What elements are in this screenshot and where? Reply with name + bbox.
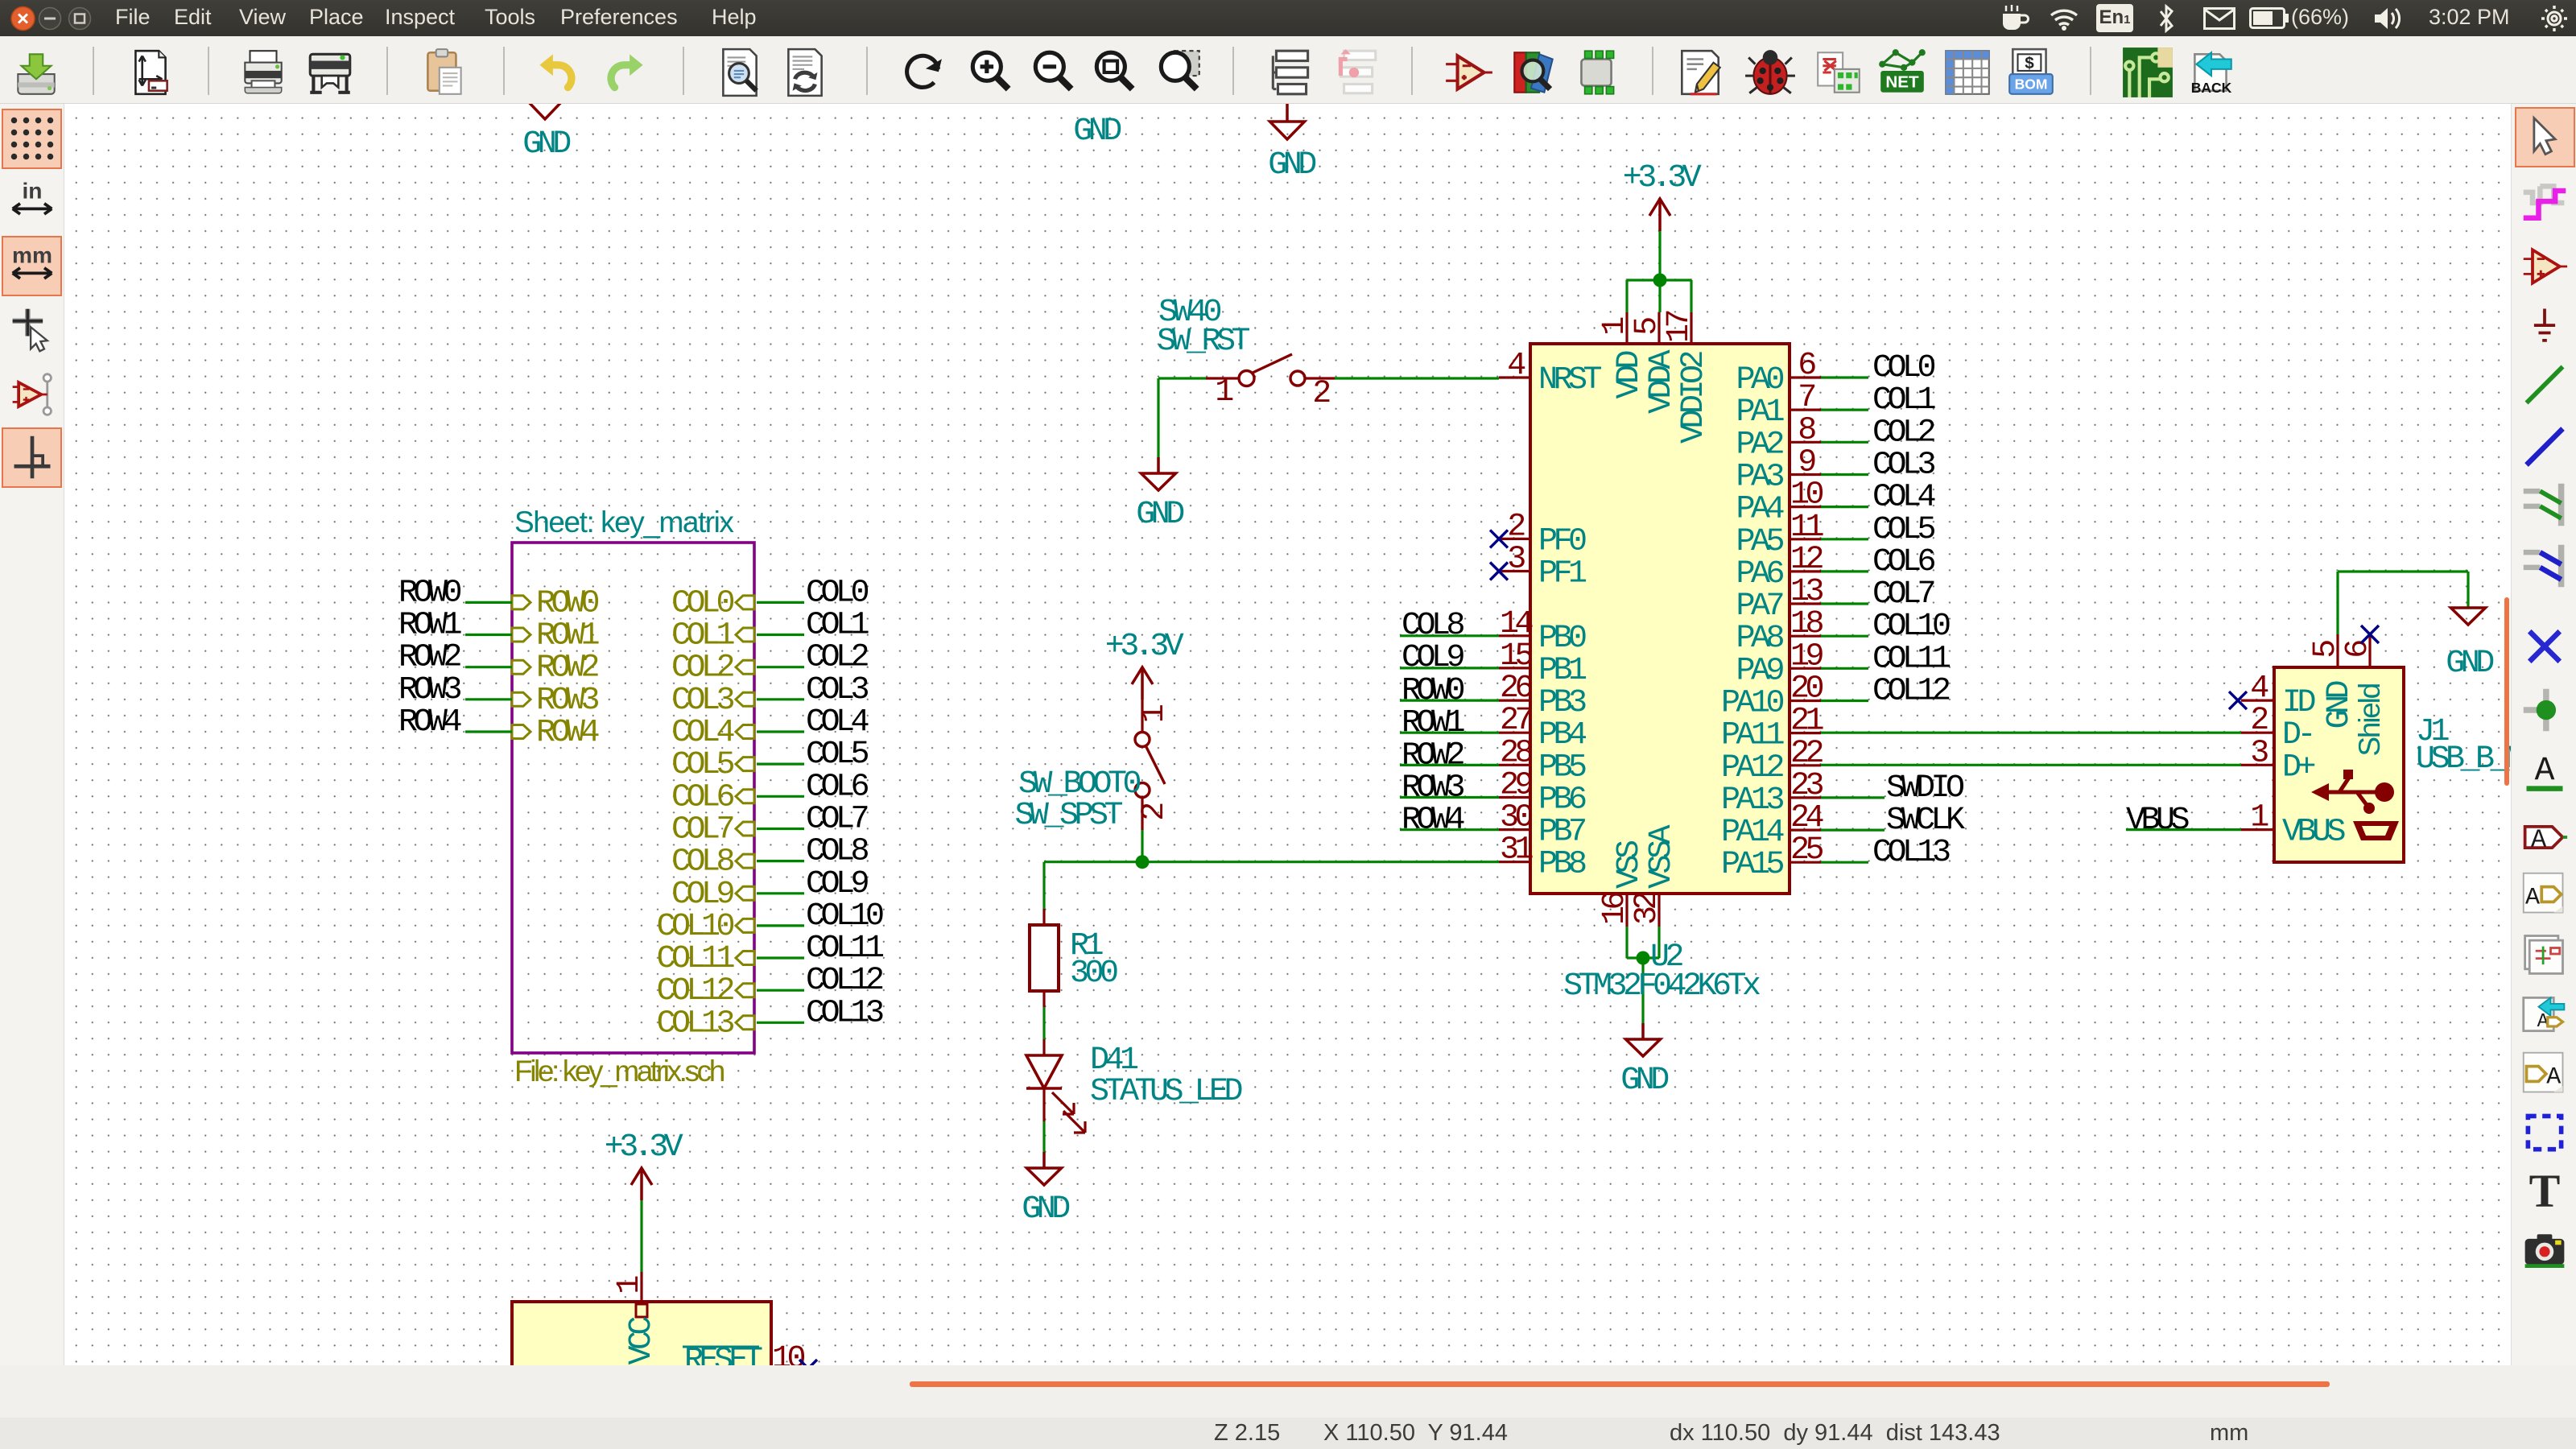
sheet pin ROW1 <box>512 628 530 642</box>
svg-text:SWCLK: SWCLK <box>1886 803 1965 839</box>
svg-text:PA12: PA12 <box>1721 750 1784 786</box>
svg-text:ROW0: ROW0 <box>536 585 599 621</box>
VBUS trapezoid icon inside J1 <box>2353 821 2399 840</box>
no-connect PF0 <box>1490 530 1508 547</box>
wire <box>1821 732 2241 734</box>
wire <box>640 1200 642 1272</box>
wire <box>1821 570 1868 572</box>
IC (partial) at bottom body <box>512 1302 771 1398</box>
wire <box>1042 1121 1045 1152</box>
svg-text:11: 11 <box>1790 510 1824 546</box>
wire <box>1625 280 1628 312</box>
pin 8 PA2 of U2 <box>1790 441 1821 444</box>
pin 2 D- of J1 <box>2241 732 2274 734</box>
svg-text:PA15: PA15 <box>1721 847 1784 883</box>
sheet pin ROW2 <box>512 660 530 674</box>
sheet pin COL1 <box>736 628 754 642</box>
pin 4 NRST of U2 <box>1499 376 1530 378</box>
svg-text:COL11: COL11 <box>656 941 734 977</box>
svg-text:PB4: PB4 <box>1538 717 1586 753</box>
svg-text:T: T <box>2529 1166 2561 1214</box>
svg-text:COL13: COL13 <box>656 1005 733 1042</box>
MCU U2 STM32F042K6Tx body <box>1530 344 1790 894</box>
svg-text:COL3: COL3 <box>671 683 734 719</box>
wire <box>465 634 512 636</box>
svg-text:ROW1: ROW1 <box>1402 705 1465 741</box>
svg-text:PB6: PB6 <box>1538 782 1586 819</box>
pin 16 VSS of U2 <box>1625 894 1628 927</box>
svg-text:7: 7 <box>1798 380 1814 416</box>
pin 13 PA7 of U2 <box>1790 602 1821 605</box>
wire <box>757 762 804 765</box>
svg-text:ROW4: ROW4 <box>398 704 461 741</box>
svg-text:ROW4: ROW4 <box>536 715 599 751</box>
svg-text:COL5: COL5 <box>806 737 869 773</box>
svg-text:27: 27 <box>1500 703 1532 739</box>
svg-text:12: 12 <box>1790 542 1823 578</box>
pin 15 PB1 of U2 <box>1499 667 1530 669</box>
svg-text:ROW4: ROW4 <box>1402 803 1464 839</box>
svg-text:VBUS: VBUS <box>2126 803 2190 839</box>
svg-text:GND: GND <box>2446 646 2493 682</box>
svg-text:20: 20 <box>1790 671 1823 708</box>
svg-text:VSS: VSS <box>1612 840 1648 889</box>
junction below U2 <box>1637 952 1650 965</box>
svg-text:COL12: COL12 <box>656 973 733 1009</box>
svg-text:GND: GND <box>1620 1063 1668 1099</box>
svg-text:PB7: PB7 <box>1538 815 1585 851</box>
svg-text:VCC: VCC <box>624 1317 660 1365</box>
wire <box>1821 635 1868 638</box>
pin 29 PB6 of U2 <box>1499 796 1530 799</box>
wire <box>1400 764 1499 766</box>
wire <box>1042 862 1045 909</box>
svg-text:COL7: COL7 <box>806 802 868 838</box>
wire <box>1658 280 1661 312</box>
pin 2 of SW40 <box>1305 377 1335 379</box>
power +3.3V above bottom IC <box>640 1168 643 1200</box>
svg-text:ROW3: ROW3 <box>536 683 599 719</box>
pin 1 VCC of bottom IC <box>640 1272 642 1302</box>
wire <box>1821 764 2241 766</box>
sheet pin COL3 <box>736 692 754 706</box>
svg-text:PA1: PA1 <box>1736 394 1784 431</box>
svg-text:COL2: COL2 <box>806 640 869 676</box>
pin 32 VSSA of U2 <box>1657 894 1660 927</box>
svg-text:COL0: COL0 <box>671 585 734 621</box>
sheet pin COL13 <box>736 1016 754 1030</box>
sheet pin COL5 <box>736 758 754 771</box>
wire <box>757 666 804 668</box>
pin 30 PB7 of U2 <box>1499 828 1530 831</box>
wire <box>1690 280 1692 312</box>
sheet pin COL8 <box>736 854 754 868</box>
wire <box>1141 830 1143 862</box>
wire <box>1400 828 1499 831</box>
wire <box>757 730 804 733</box>
svg-text:$: $ <box>2025 54 2034 72</box>
sheet pin COL2 <box>736 660 754 674</box>
pin 19 PA9 of U2 <box>1790 667 1821 670</box>
wire <box>757 860 804 862</box>
wire <box>1157 378 1159 457</box>
svg-text:VDDA: VDDA <box>1644 350 1680 415</box>
junction on PB8 wire <box>1136 855 1150 869</box>
svg-text:ROW1: ROW1 <box>398 608 462 644</box>
svg-text:PF1: PF1 <box>1538 556 1587 592</box>
svg-text:BACK: BACK <box>2191 80 2232 96</box>
svg-text:NRST: NRST <box>1538 362 1602 398</box>
svg-text:PA10: PA10 <box>1721 686 1784 722</box>
wire <box>757 892 804 894</box>
pin 2 PF0 of U2 <box>1499 538 1530 540</box>
svg-text:2: 2 <box>1312 376 1330 412</box>
wire <box>1821 700 1868 702</box>
wire <box>757 924 804 927</box>
svg-text:PA0: PA0 <box>1736 362 1783 398</box>
svg-text:+3.3V: +3.3V <box>605 1129 683 1166</box>
svg-text:COL1: COL1 <box>671 618 735 654</box>
pin 27 PB4 of U2 <box>1499 732 1530 734</box>
wire <box>1821 538 1868 540</box>
wire <box>465 666 512 668</box>
sheet pin ROW4 <box>512 725 530 739</box>
svg-text:28: 28 <box>1500 735 1533 771</box>
svg-text:24: 24 <box>1790 800 1823 836</box>
wire <box>1400 667 1499 669</box>
no-connect at RESET pin <box>799 1360 817 1377</box>
svg-text:COL5: COL5 <box>1872 512 1935 548</box>
pin 12 PA6 of U2 <box>1790 570 1821 572</box>
svg-text:26: 26 <box>1500 671 1533 707</box>
svg-text:10: 10 <box>1790 477 1823 514</box>
svg-text:PA9: PA9 <box>1736 653 1783 689</box>
svg-text:NET: NET <box>1885 73 1919 92</box>
pin 2 of SW_BOOT0 <box>1141 797 1143 830</box>
wire <box>1821 506 1868 508</box>
svg-text:VBUS: VBUS <box>2282 815 2346 851</box>
svg-text:COL10: COL10 <box>656 909 733 945</box>
ground below SW40 <box>1157 457 1160 473</box>
svg-text:PB8: PB8 <box>1538 847 1586 883</box>
pin 3 D+ of J1 <box>2241 764 2274 766</box>
wire <box>1400 699 1499 701</box>
wire <box>757 698 804 700</box>
wire <box>465 730 512 733</box>
svg-text:COL0: COL0 <box>806 575 869 611</box>
svg-text:COL1: COL1 <box>806 608 869 644</box>
svg-text:COL10: COL10 <box>806 898 883 935</box>
pin 25 PA15 of U2 <box>1790 861 1821 864</box>
no-connect Shield <box>2361 625 2379 643</box>
connector J1 USB_B_Micro body <box>2274 667 2404 862</box>
svg-text:PA8: PA8 <box>1736 621 1783 657</box>
wire <box>757 989 804 992</box>
pin 6 Shield of J1 <box>2368 634 2371 667</box>
wire <box>1158 377 1206 379</box>
pin 3 PF1 of U2 <box>1499 570 1530 572</box>
pin 9 PA3 of U2 <box>1790 473 1821 476</box>
svg-text:Sheet: key_matrix: Sheet: key_matrix <box>514 506 734 539</box>
svg-text:COL4: COL4 <box>671 715 734 751</box>
pin 4 ID of J1 <box>2241 699 2274 701</box>
USB logo inside J1 <box>2311 770 2394 814</box>
sheet key_matrix <box>512 543 754 1053</box>
svg-text:COL8: COL8 <box>1402 608 1464 644</box>
svg-text:PA4: PA4 <box>1736 492 1783 528</box>
svg-text:COL5: COL5 <box>671 747 734 783</box>
svg-text:17: 17 <box>1662 312 1698 344</box>
power +3.3V above SW_BOOT0 <box>1141 667 1144 700</box>
svg-text:SW_RST: SW_RST <box>1157 324 1250 360</box>
svg-text:ROW0: ROW0 <box>398 575 461 611</box>
sheet pin COL9 <box>736 886 754 900</box>
pin 23 PA13 of U2 <box>1790 796 1821 799</box>
pin 31 PB8 of U2 <box>1499 861 1530 863</box>
wire <box>1400 796 1499 799</box>
no-connect ID <box>2229 691 2247 709</box>
wire <box>1400 732 1499 734</box>
svg-text:PB3: PB3 <box>1538 685 1586 721</box>
wire <box>2336 572 2339 634</box>
wire <box>1821 667 1868 670</box>
wire <box>2467 572 2469 608</box>
svg-text:PB1: PB1 <box>1538 653 1587 689</box>
svg-text:PF0: PF0 <box>1538 523 1586 559</box>
svg-text:PA11: PA11 <box>1721 718 1785 754</box>
pin 22 PA12 of U2 <box>1790 764 1821 766</box>
wire <box>1821 441 1868 444</box>
svg-text:14: 14 <box>1500 606 1533 642</box>
pin 5 GND of J1 <box>2336 634 2339 667</box>
svg-text:30: 30 <box>1500 800 1533 836</box>
svg-text:A: A <box>2525 884 2540 911</box>
svg-text:COL12: COL12 <box>1872 674 1950 710</box>
svg-text:COL2: COL2 <box>1872 415 1935 451</box>
wire <box>1821 376 1868 378</box>
svg-text:PA7: PA7 <box>1736 588 1782 625</box>
wire <box>1627 956 1659 959</box>
wire <box>1821 409 1868 411</box>
svg-text:PB0: PB0 <box>1538 621 1586 657</box>
svg-text:Shield: Shield <box>2353 683 2386 756</box>
svg-text:1: 1 <box>1215 374 1233 411</box>
svg-text:32: 32 <box>1629 893 1666 926</box>
wire <box>757 1022 804 1024</box>
wire <box>1641 958 1644 1023</box>
wire <box>1821 828 1885 831</box>
wire <box>1335 377 1499 379</box>
power +3.3V above U2 <box>1658 199 1662 231</box>
svg-text:COL11: COL11 <box>806 931 884 967</box>
pin 10 PA4 of U2 <box>1790 506 1821 508</box>
svg-text:COL9: COL9 <box>806 866 869 902</box>
svg-text:COL4: COL4 <box>1872 480 1935 516</box>
svg-text:COL13: COL13 <box>806 995 883 1031</box>
svg-text:GND: GND <box>1268 147 1315 184</box>
svg-text:15: 15 <box>1500 638 1533 675</box>
svg-text:COL6: COL6 <box>671 779 734 815</box>
pin 11 PA5 of U2 <box>1790 538 1821 540</box>
svg-text:ROW3: ROW3 <box>1402 770 1464 807</box>
wire <box>1627 279 1691 281</box>
ground GND (top, near MCU) <box>1286 104 1289 122</box>
svg-text:COL0: COL0 <box>1872 350 1935 386</box>
wire <box>2338 570 2468 572</box>
wire <box>1657 927 1660 958</box>
pin 28 PB5 of U2 <box>1499 764 1530 766</box>
pin 6 PA0 of U2 <box>1790 376 1821 378</box>
svg-text:COL1: COL1 <box>1872 382 1936 419</box>
pin 20 PA10 of U2 <box>1790 700 1821 702</box>
sheet pin COL0 <box>736 596 754 609</box>
svg-text:ROW2: ROW2 <box>536 650 599 687</box>
svg-text:GND: GND <box>1073 114 1121 150</box>
pin 18 PA8 of U2 <box>1790 635 1821 638</box>
svg-text:PA13: PA13 <box>1721 782 1784 819</box>
svg-text:COL7: COL7 <box>1872 576 1934 613</box>
svg-text:COL3: COL3 <box>806 672 869 708</box>
pin 26 PB3 of U2 <box>1499 699 1530 701</box>
wire <box>1658 231 1661 280</box>
switch SW_BOOT0 SW_SPST <box>1141 700 1143 732</box>
svg-text:mm: mm <box>12 242 52 267</box>
svg-text:COL13: COL13 <box>1872 835 1950 871</box>
svg-text:COL6: COL6 <box>1872 544 1935 580</box>
svg-text:19: 19 <box>1790 638 1823 675</box>
pin 17 VDDIO2 of U2 <box>1690 312 1692 344</box>
svg-text:+3.3V: +3.3V <box>1105 629 1184 665</box>
svg-text:25: 25 <box>1790 832 1823 869</box>
sheet pin COL7 <box>736 822 754 836</box>
sheet pin COL12 <box>736 984 754 997</box>
svg-text:COL8: COL8 <box>671 844 734 881</box>
svg-text:PA6: PA6 <box>1736 556 1783 592</box>
svg-text:COL2: COL2 <box>671 650 734 687</box>
svg-text:SWDIO: SWDIO <box>1886 770 1963 807</box>
svg-text:A: A <box>2531 824 2547 854</box>
svg-text:D+: D+ <box>2282 749 2315 786</box>
pin 1 VDD of U2 <box>1625 312 1628 344</box>
svg-text:COL6: COL6 <box>806 769 869 805</box>
resistor R1 300 <box>1042 909 1045 925</box>
svg-text:in: in <box>23 178 43 203</box>
wire <box>757 634 804 636</box>
svg-text:ID: ID <box>2282 685 2315 721</box>
svg-text:COL3: COL3 <box>1872 448 1935 484</box>
sheet pin COL6 <box>736 790 754 803</box>
svg-text:COL4: COL4 <box>806 704 869 741</box>
svg-text:USB_B_M: USB_B_M <box>2416 741 2511 778</box>
svg-text:13: 13 <box>1790 574 1823 610</box>
LED D41 STATUS_LED <box>1042 1039 1045 1055</box>
svg-text:COL8: COL8 <box>806 834 869 870</box>
junction at VDD bracket <box>1653 274 1667 287</box>
svg-text:COL9: COL9 <box>671 877 734 913</box>
svg-text:GND: GND <box>1136 497 1183 533</box>
svg-text:STATUS_LED: STATUS_LED <box>1090 1074 1242 1110</box>
wire <box>1044 861 1499 863</box>
svg-text:COL11: COL11 <box>1872 641 1951 677</box>
pin 21 PA11 of U2 <box>1790 732 1821 734</box>
pin 7 PA1 of U2 <box>1790 409 1821 411</box>
wire <box>1042 1007 1045 1039</box>
pin 24 PA14 of U2 <box>1790 828 1821 831</box>
svg-text:300: 300 <box>1070 956 1117 992</box>
svg-text:PB5: PB5 <box>1538 749 1586 786</box>
svg-text:21: 21 <box>1790 704 1824 740</box>
wire <box>757 795 804 798</box>
sheet pin COL11 <box>736 952 754 965</box>
ground GND (top-left, clipped) <box>527 101 563 119</box>
svg-text:A: A <box>2535 753 2555 790</box>
no-connect PF1 <box>1490 563 1508 580</box>
wire <box>1821 796 1885 799</box>
svg-text:PA3: PA3 <box>1736 460 1783 496</box>
wire <box>1400 634 1499 637</box>
svg-text:PA14: PA14 <box>1721 815 1784 851</box>
svg-text:SW_SPST: SW_SPST <box>1014 798 1122 834</box>
svg-text:VDD: VDD <box>1612 352 1648 399</box>
svg-text:VSSA: VSSA <box>1644 824 1680 889</box>
svg-text:+3.3V: +3.3V <box>1623 160 1702 196</box>
wire <box>1821 602 1868 605</box>
sheet pin ROW3 <box>512 692 530 706</box>
wire <box>757 828 804 830</box>
ground right of J1 <box>2451 608 2486 625</box>
svg-text:VDDIO2: VDDIO2 <box>1676 352 1712 444</box>
svg-text:ROW3: ROW3 <box>398 672 461 708</box>
pin 1 VBUS of J1 <box>2241 828 2274 831</box>
sheet pin COL4 <box>736 725 754 739</box>
svg-text:File: key_matrix.sch: File: key_matrix.sch <box>514 1055 724 1088</box>
svg-text:COL9: COL9 <box>1402 640 1464 676</box>
svg-text:COL7: COL7 <box>671 812 733 848</box>
ground below U2 <box>1641 1023 1645 1039</box>
svg-text:GND: GND <box>1022 1191 1069 1228</box>
pin 5 VDDA of U2 <box>1657 312 1660 344</box>
wire <box>757 956 804 959</box>
svg-text:D-: D- <box>2282 717 2312 753</box>
svg-text:A: A <box>2546 1063 2561 1091</box>
svg-text:PA2: PA2 <box>1736 427 1783 463</box>
svg-text:18: 18 <box>1790 606 1823 642</box>
wire <box>1821 473 1868 476</box>
svg-text:23: 23 <box>1790 768 1823 804</box>
sheet pin COL10 <box>736 919 754 932</box>
wire <box>2126 828 2241 831</box>
wire <box>757 601 804 604</box>
svg-text:ROW1: ROW1 <box>536 618 600 654</box>
wire <box>465 601 512 604</box>
ground below D41 <box>1042 1152 1046 1168</box>
sheet pin ROW0 <box>512 596 530 609</box>
svg-text:COL10: COL10 <box>1872 609 1950 645</box>
svg-text:GND: GND <box>522 126 570 163</box>
svg-text:16: 16 <box>1597 893 1633 926</box>
svg-text:31: 31 <box>1500 832 1534 869</box>
pin 1 of SW40 <box>1206 377 1239 379</box>
svg-text:ROW0: ROW0 <box>1402 673 1464 709</box>
svg-text:29: 29 <box>1500 768 1533 804</box>
svg-text:BOM: BOM <box>2015 76 2048 93</box>
svg-text:ROW2: ROW2 <box>1402 737 1464 774</box>
wire <box>465 698 512 700</box>
wire <box>1625 927 1628 958</box>
svg-text:PA5: PA5 <box>1736 524 1783 560</box>
svg-text:STM32F042K6Tx: STM32F042K6Tx <box>1563 968 1761 1005</box>
wire <box>1821 861 1868 864</box>
